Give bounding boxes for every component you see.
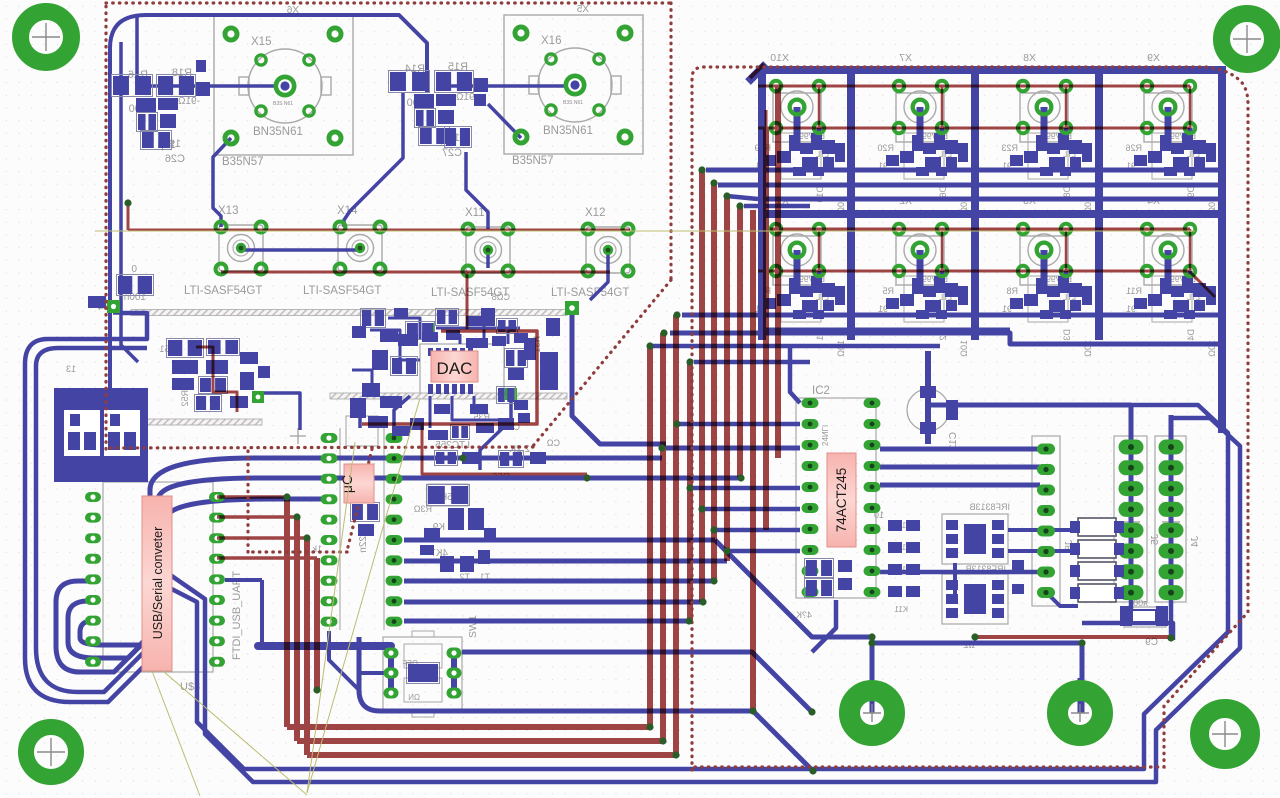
svg-text:J4: J4 <box>1189 536 1201 547</box>
mounting hole <box>1222 14 1273 65</box>
ground loop outer <box>25 313 1240 782</box>
IC2 silk <box>796 385 876 620</box>
connector J8 silk <box>1032 436 1060 606</box>
mounting hole <box>1200 709 1251 760</box>
C11 silk <box>907 389 959 450</box>
C9 pads <box>1120 606 1132 626</box>
wire uC to DAC <box>394 396 410 438</box>
mounting hole <box>26 727 76 777</box>
J5 J4 pads <box>1119 440 1144 455</box>
encoder pads <box>225 28 237 40</box>
pads layer <box>85 27 1195 699</box>
wire J column verticals <box>1129 403 1134 600</box>
svg-text:LTI-SASF54GT: LTI-SASF54GT <box>551 287 629 299</box>
red X4 diagonal <box>1189 271 1215 297</box>
FTDI module silk U$3 <box>103 428 306 693</box>
wire loop to FTDI pad 6 <box>68 478 741 658</box>
svg-text:10Ω: 10Ω <box>836 340 846 357</box>
hatched keepout strip 2 <box>90 419 262 425</box>
key switch X8 silk <box>1001 52 1093 214</box>
SMD resistor 0 ohm R24 <box>118 276 132 294</box>
microcontroller silk <box>312 416 384 630</box>
wire X16 cluster down to X11 <box>466 152 488 229</box>
key switch X10 silk <box>754 52 846 214</box>
key X2 stem and SMD cluster <box>886 250 968 319</box>
T1 T2 pads <box>440 556 454 572</box>
DAC pin comb <box>428 384 433 394</box>
svg-text:X5: X5 <box>576 4 589 15</box>
wire X13 to X14 <box>241 248 360 252</box>
wire matrix to IC2 <box>790 344 800 403</box>
FTDI red feeds <box>217 495 287 499</box>
svg-text:D6: D6 <box>938 186 948 198</box>
wire opto bottom L <box>953 563 957 600</box>
wire 74ACT bottom corner <box>812 600 836 652</box>
svg-text:LTI-SASF54GT: LTI-SASF54GT <box>184 285 262 297</box>
key switch X2 silk <box>878 195 969 357</box>
svg-text:0: 0 <box>131 264 137 275</box>
J8 low wires <box>880 570 1046 575</box>
svg-text:X10: X10 <box>770 52 789 64</box>
key switch pads <box>894 81 905 92</box>
svg-text:X16: X16 <box>541 35 561 47</box>
SW1 center part <box>408 664 438 682</box>
svg-text:B35N57: B35N57 <box>222 156 264 168</box>
uC cluster SMDs <box>350 398 366 418</box>
key X3 stem and SMD cluster <box>1010 250 1092 319</box>
optocoupler silk IRF8313B x2 <box>942 502 1010 650</box>
svg-text:R26: R26 <box>1125 143 1142 153</box>
red stub left <box>127 205 130 230</box>
mounting hole <box>1058 678 1103 736</box>
key X1 stem and SMD cluster <box>763 250 845 319</box>
key switch X3 silk <box>1002 195 1093 357</box>
key X7 stem and SMD cluster <box>886 107 968 176</box>
key switch pads <box>771 81 782 92</box>
svg-text:CΩ8: CΩ8 <box>492 292 510 302</box>
svg-text:R23: R23 <box>1001 143 1018 153</box>
svg-text:4?K: 4?K <box>796 610 812 620</box>
IC2 pads <box>802 398 819 408</box>
red bundle left verticals <box>284 497 290 727</box>
rotary encoder X15 B35N57 <box>214 5 353 168</box>
wire X11 stub <box>486 250 490 268</box>
ground loop inner <box>36 348 1228 769</box>
svg-text:R15: R15 <box>448 61 468 73</box>
svg-text:IC2: IC2 <box>812 385 830 397</box>
svg-text:D9: D9 <box>1186 186 1196 198</box>
wire IC2 bottom to donuts <box>870 637 875 713</box>
encoder pads <box>515 27 527 39</box>
wire loop to FTDI pad 5 <box>56 458 662 672</box>
via dots <box>124 166 1174 774</box>
button pads <box>463 224 474 235</box>
key switch pads <box>1142 224 1153 235</box>
key X9 stem and SMD cluster <box>1134 107 1216 176</box>
button pads <box>335 222 346 233</box>
airwire DAC to bottom <box>307 398 420 793</box>
svg-text:ΩN: ΩN <box>408 693 420 702</box>
label DAC <box>431 351 478 382</box>
opto pins <box>946 520 958 530</box>
IC2 to J8 wires <box>880 447 1040 452</box>
wire X15 bottom pad diagonal <box>213 138 231 227</box>
svg-text:X15: X15 <box>251 36 271 48</box>
svg-text:C26: C26 <box>165 153 185 165</box>
C11 pads <box>920 386 936 398</box>
matrix corner red bevel <box>750 64 764 78</box>
airwires from USB label <box>152 671 200 796</box>
red bundle bottom horizontals <box>287 724 650 730</box>
svg-text:C27: C27 <box>442 147 462 159</box>
wire pad D to T cluster <box>480 394 511 470</box>
wire SW1 left bar <box>258 642 391 650</box>
svg-text:D8: D8 <box>1062 186 1072 198</box>
key matrix frame <box>748 64 1222 433</box>
key switch X4 silk <box>1126 195 1217 357</box>
mounting hole <box>850 678 895 736</box>
hatched keepout strip 1 <box>131 310 567 316</box>
svg-text:22n: 22n <box>358 536 369 553</box>
connector J4 silk <box>1155 436 1186 602</box>
svg-text:X11: X11 <box>465 207 485 219</box>
svg-text:X12: X12 <box>585 207 605 219</box>
wire R16 cluster to X15 center <box>136 84 285 88</box>
C9 silk <box>1124 598 1166 648</box>
silk texts R16/R18 cluster <box>128 67 200 165</box>
svg-text:BN35N61: BN35N61 <box>543 125 593 137</box>
R array parts <box>888 520 902 531</box>
svg-text:R11: R11 <box>1126 286 1142 296</box>
red DAC loop <box>362 331 537 424</box>
DIP switch SW1 silk <box>383 615 479 717</box>
diode array pads <box>1070 521 1080 533</box>
IC2 feed wires <box>666 446 800 451</box>
svg-text:10Ω: 10Ω <box>959 340 969 357</box>
red C9 line <box>975 635 1171 639</box>
push button X12 LTI-SASF54GT <box>551 207 630 299</box>
button row net 2 <box>221 271 610 274</box>
label USB/Serial converter <box>142 496 172 671</box>
red bundle right verticals <box>647 346 653 727</box>
airwire long horizontal <box>95 230 1195 232</box>
key switch X7 silk <box>877 52 969 214</box>
outline second vertical <box>121 42 138 362</box>
key X4 stem and SMD cluster <box>1134 250 1216 319</box>
uC left pads down <box>329 631 359 690</box>
copper top layer (red) <box>128 64 1215 755</box>
square pad D <box>505 388 517 400</box>
matrix red rows <box>758 85 1190 88</box>
rotary encoder X16 B35N57 <box>504 4 643 167</box>
wire X12 stub <box>590 250 608 300</box>
SW1 pad bars <box>388 648 394 698</box>
svg-text:K11: K11 <box>894 605 908 614</box>
SW1 pads <box>384 648 399 659</box>
push button X13 LTI-SASF54GT <box>184 205 263 297</box>
wire green pad A <box>113 313 147 339</box>
DAC surrounding SMDs <box>362 310 371 326</box>
J8 pads <box>1037 444 1055 455</box>
svg-text:LTC?55: LTC?55 <box>435 440 470 451</box>
wire loop to FTDI pad 7 <box>80 499 329 645</box>
USB area transceiver cluster <box>168 340 182 356</box>
wire FTDI right pads <box>225 578 262 582</box>
wire X16 bottom pad diagonal <box>488 104 521 138</box>
key switch pads <box>771 224 782 235</box>
svg-text:24ИΓΙ: 24ИΓΙ <box>821 425 830 446</box>
svg-text:CΩ: CΩ <box>547 438 560 448</box>
red right top entries <box>765 110 768 128</box>
microcontroller pads <box>321 433 338 443</box>
svg-text:LTI-SASF54GT: LTI-SASF54GT <box>303 285 381 297</box>
frame corner bevel <box>748 64 766 82</box>
IC2 decoupling parts <box>806 560 817 576</box>
svg-text:R52: R52 <box>180 390 190 407</box>
key switch X1 silk <box>755 195 846 357</box>
SMD components upper-left cluster R16 R18 C26 <box>54 60 1168 684</box>
square pad C <box>252 391 264 403</box>
svg-text:D4: D4 <box>1186 329 1196 341</box>
svg-text:X9: X9 <box>1147 52 1160 64</box>
wire J to C9 <box>1169 600 1174 638</box>
DAC cluster wiring <box>572 313 666 444</box>
key switch pads <box>894 224 905 235</box>
square pad A <box>107 300 120 313</box>
svg-text:B3S N61: B3S N61 <box>563 100 583 106</box>
big ground pour USB <box>54 388 148 482</box>
bus wires to key matrix mid <box>404 538 715 543</box>
encoder corner pads <box>520 14 522 16</box>
label 74ACT245 <box>827 453 856 547</box>
key switch pads <box>1018 224 1029 235</box>
svg-text:D3: D3 <box>1062 329 1072 341</box>
square pad E <box>425 323 435 333</box>
svg-text:FTDI_USB_UART: FTDI_USB_UART <box>231 571 243 660</box>
wire SW1 to corner <box>462 652 812 712</box>
wire R14 cluster vertical to X14 <box>344 92 403 227</box>
R-array silk <box>874 510 912 614</box>
matrix row2 bus <box>682 313 1222 318</box>
encoder cluster red jog <box>196 347 237 412</box>
red X11 down to DAC <box>466 272 469 332</box>
svg-text:B3S N61: B3S N61 <box>273 101 293 107</box>
dotted outline region B <box>692 67 1248 770</box>
svg-text:74ACT245: 74ACT245 <box>834 468 849 533</box>
wire under SW1 <box>359 637 813 771</box>
opto to J wires <box>1008 528 1070 532</box>
frame verticals <box>758 66 766 340</box>
button row net 1 <box>128 229 630 232</box>
svg-text:IRF8313B: IRF8313B <box>969 502 1010 512</box>
SMD R54 parts <box>88 296 106 308</box>
mounting hole <box>21 12 72 63</box>
push button X11 LTI-SASF54GT <box>431 207 510 299</box>
wire R15 cluster to X16 center <box>446 84 573 88</box>
svg-text:R8: R8 <box>1006 286 1018 296</box>
svg-text:-91Ω: -91Ω <box>178 96 200 107</box>
button pads <box>583 224 594 235</box>
key X10 stem and SMD cluster <box>763 107 845 176</box>
key switch pads <box>1142 81 1153 92</box>
wire top to R16 cluster <box>135 14 139 86</box>
svg-text:R20: R20 <box>877 143 894 153</box>
board outline top edge <box>110 15 427 390</box>
hatched keepout strip 3 <box>330 393 567 399</box>
svg-text:X8: X8 <box>1023 52 1036 64</box>
key switch X9 silk <box>1125 52 1217 214</box>
svg-text:DAC: DAC <box>437 359 473 378</box>
C11 stem <box>925 351 931 444</box>
red branch to via <box>422 424 587 474</box>
svg-text:BN35N61: BN35N61 <box>253 126 303 138</box>
square pad B <box>565 301 579 315</box>
opto small parts <box>1012 560 1024 570</box>
svg-text:R5: R5 <box>882 286 894 296</box>
wire C11 to J5 top <box>928 403 1131 408</box>
svg-text:USB/Serial conveter: USB/Serial conveter <box>151 527 165 640</box>
DAC chip silk <box>393 292 560 533</box>
diode-array silk D5-D8 <box>1078 518 1116 536</box>
button pads <box>216 222 227 233</box>
connector J5 silk <box>1114 436 1147 602</box>
silk texts R14/R15 cluster <box>405 61 478 159</box>
matrix row1 bus <box>706 168 1222 173</box>
svg-text:X7: X7 <box>899 52 912 64</box>
label uC <box>339 464 374 503</box>
wire opto area down <box>1082 623 1173 640</box>
key switch pads <box>1018 81 1029 92</box>
right cluster K9 R35 <box>436 452 444 464</box>
svg-text:μC: μC <box>339 475 355 493</box>
wire diodes to right <box>1046 592 1078 606</box>
dotted outline region A <box>106 1 671 4</box>
encoder corner pads <box>230 15 232 17</box>
svg-text:B35N57: B35N57 <box>512 155 554 167</box>
FTDI pads <box>85 492 101 502</box>
T1 T2 silk texts <box>428 484 490 582</box>
red top connectors into matrix <box>751 210 755 230</box>
SMD components cluster R14 R15 C27 <box>390 72 406 91</box>
key X8 stem and SMD cluster <box>1010 107 1092 176</box>
SW1 left wires <box>360 671 391 675</box>
push button X14 LTI-SASF54GT <box>303 205 382 297</box>
svg-text:13: 13 <box>66 364 76 374</box>
matrix module red stubs <box>818 86 821 128</box>
wire pad C <box>254 393 300 430</box>
